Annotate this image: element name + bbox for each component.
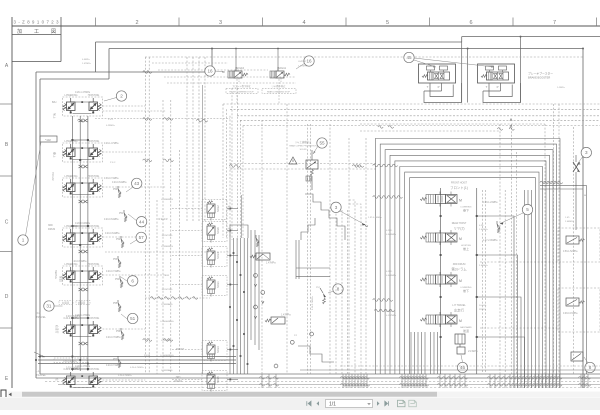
relief glyph mid 1 bbox=[255, 235, 257, 238]
svg-text:巻上: 巻上 bbox=[463, 246, 469, 251]
svg-text:3RD: 3RD bbox=[176, 376, 181, 379]
svg-text:3: 3 bbox=[585, 150, 588, 155]
svg-text:SOL2: SOL2 bbox=[216, 205, 220, 212]
svg-text:2.06MPa: 2.06MPa bbox=[479, 265, 489, 267]
svg-text:HOISTING: HOISTING bbox=[88, 368, 100, 371]
wire left outer border horizontal bbox=[36, 71, 212, 73]
pilot line dashed vertical bundle left 2 bbox=[162, 100, 164, 374]
svg-text:3RD: 3RD bbox=[48, 224, 53, 227]
svg-text:0.29-1.47MPa: 0.29-1.47MPa bbox=[104, 143, 119, 145]
wire mid verticals bundle dashed bbox=[335, 210, 337, 374]
svg-text:L.H: L.H bbox=[36, 369, 40, 373]
svg-text:HOISTING: HOISTING bbox=[88, 263, 100, 266]
balloon 31 leader bbox=[54, 305, 63, 307]
svg-text:SOL10: SOL10 bbox=[236, 66, 245, 70]
svg-text:LOWERING: LOWERING bbox=[64, 140, 77, 143]
solenoid stack valve SOL3 bbox=[202, 341, 227, 361]
svg-text:P: P bbox=[438, 85, 440, 89]
pilot dashed row right mid 2 bbox=[480, 327, 558, 329]
svg-text:0.29MPa: 0.29MPa bbox=[106, 125, 116, 127]
svg-text:LOWERING: LOWERING bbox=[64, 225, 77, 228]
relief valve right of bank bbox=[496, 221, 498, 224]
svg-text:16: 16 bbox=[207, 69, 213, 74]
wire bottom bus 1 bbox=[40, 373, 600, 375]
svg-text:SOL11: SOL11 bbox=[278, 66, 286, 70]
svg-text:0.59-1.52MPa: 0.59-1.52MPa bbox=[563, 251, 578, 253]
balloon 5 mid bbox=[522, 204, 532, 214]
travel crossover arrow bbox=[34, 352, 45, 357]
svg-text:55: 55 bbox=[319, 141, 325, 146]
svg-text:2.06MPa: 2.06MPa bbox=[565, 221, 575, 223]
svg-text:0.98-1.23MPa: 0.98-1.23MPa bbox=[483, 202, 498, 204]
svg-text:右走行: 右走行 bbox=[55, 325, 59, 334]
balloon 46 bbox=[457, 362, 467, 372]
svg-text:0.20-0.70MPa: 0.20-0.70MPa bbox=[106, 337, 121, 339]
wire right border vertical bbox=[582, 49, 584, 389]
wire solid vertical x241 bbox=[240, 195, 242, 238]
svg-text:リヤ巻下停止: リヤ巻下停止 bbox=[271, 84, 286, 88]
wire bottom crossing bundle ticks bbox=[261, 374, 263, 388]
pilot sensor P50 bbox=[117, 186, 119, 189]
balloon 3 right bbox=[581, 147, 591, 157]
svg-text:0.292-: 0.292- bbox=[386, 271, 392, 273]
toolbar page-layout icon 1 bbox=[398, 400, 406, 407]
svg-text:P50: P50 bbox=[113, 188, 118, 191]
svg-text:後退: 後退 bbox=[463, 328, 469, 333]
ripples middle col bbox=[229, 165, 234, 168]
pilot line dashed vertical bundle mid-left bbox=[186, 57, 188, 222]
svg-text:P: P bbox=[497, 85, 499, 89]
svg-text:0.29-0.74MPa: 0.29-0.74MPa bbox=[312, 295, 314, 310]
balloon 45 bbox=[404, 52, 414, 62]
svg-text:0.20-0.64MPa: 0.20-0.64MPa bbox=[104, 219, 119, 221]
pilot line dashed vertical bundle left bbox=[144, 57, 146, 374]
wire travel crossover bus 1 bbox=[38, 356, 236, 358]
viewer corner glyph bbox=[1, 390, 6, 397]
wire staircase upper right 2 bbox=[305, 194, 345, 240]
svg-text:FRONT: FRONT bbox=[176, 348, 185, 351]
wire nested pilot loops right band bbox=[375, 139, 560, 389]
svg-text:0.096-: 0.096- bbox=[386, 311, 392, 313]
brake booster valve 2 bbox=[478, 64, 515, 83]
pilot line dashed vertical right bank bbox=[482, 190, 484, 374]
svg-text:0.5MPa: 0.5MPa bbox=[82, 59, 90, 61]
svg-text:0.20-0.64MPa: 0.20-0.64MPa bbox=[75, 222, 91, 225]
svg-text:1-2MPa: 1-2MPa bbox=[557, 87, 565, 89]
accumulator component bank bottom bbox=[455, 334, 465, 344]
svg-text:HOISTING: HOISTING bbox=[162, 289, 173, 291]
horizontal scrollbar left arrow bbox=[9, 393, 12, 397]
toolbar first-page button bbox=[307, 401, 311, 406]
wire brake booster drop 2 bbox=[520, 37, 522, 103]
svg-text:D: D bbox=[5, 294, 9, 300]
svg-text:M: M bbox=[459, 237, 462, 241]
svg-text:旋回: 旋回 bbox=[59, 276, 63, 282]
pilot jumper dashed pair7 bbox=[103, 379, 146, 381]
svg-text:SOL6: SOL6 bbox=[216, 227, 220, 234]
svg-text:LOWERING: LOWERING bbox=[161, 340, 173, 342]
svg-text:3: 3 bbox=[335, 205, 338, 210]
svg-text:OUTLET: OUTLET bbox=[298, 61, 307, 63]
svg-text:SOL59: SOL59 bbox=[300, 149, 308, 151]
svg-text:45: 45 bbox=[406, 55, 412, 60]
svg-text:T: T bbox=[427, 85, 429, 89]
svg-text:1.37-0.16MPa: 1.37-0.16MPa bbox=[368, 217, 383, 219]
svg-text:P S 2: P S 2 bbox=[110, 162, 116, 164]
balloon 55 leader bbox=[313, 146, 318, 154]
svg-text:0.20-0.64MPa: 0.20-0.64MPa bbox=[105, 233, 120, 235]
svg-text:REAR LOWERING STOP: REAR LOWERING STOP bbox=[267, 90, 291, 93]
svg-text:HOISTING: HOISTING bbox=[88, 175, 100, 178]
wire top bus 1 right part bbox=[462, 36, 600, 38]
remote control valve pair 2 bbox=[63, 143, 103, 162]
balloon 8 mid bbox=[333, 284, 343, 294]
solid vertical mid column b bbox=[254, 230, 256, 345]
remote control valve pair LH travel bbox=[62, 370, 64, 372]
svg-text:フロント(1): フロント(1) bbox=[450, 185, 468, 190]
svg-text:左走行: 左走行 bbox=[454, 308, 465, 313]
svg-text:1.47-2.06MPa: 1.47-2.06MPa bbox=[483, 240, 498, 242]
wire brake booster drop 1 bbox=[461, 42, 463, 103]
far right component bottom bbox=[571, 352, 583, 361]
component box 102 bbox=[40, 136, 57, 142]
svg-text:1.47MPa: 1.47MPa bbox=[266, 262, 276, 265]
solenoid stack valve SOL4 bbox=[202, 247, 227, 267]
svg-text:DRUM: DRUM bbox=[48, 228, 55, 231]
svg-text:巻下: 巻下 bbox=[463, 208, 469, 213]
balloon 3 right leader bbox=[577, 156, 584, 165]
pilot jumper dashed pair1b bbox=[103, 110, 167, 112]
ripples on loop left legs upper bbox=[373, 164, 378, 167]
pilot sensor P54 bbox=[119, 276, 121, 279]
ripples on right dashed bbox=[497, 128, 502, 131]
svg-text:SOL3: SOL3 bbox=[216, 346, 220, 353]
svg-text:0.127MPa: 0.127MPa bbox=[386, 315, 397, 317]
wire left inner border vertical bbox=[39, 79, 41, 374]
svg-text:5: 5 bbox=[386, 20, 389, 26]
ripples on dashed bundle 199-205 bbox=[196, 119, 201, 122]
svg-text:FORWARD: FORWARD bbox=[161, 369, 173, 372]
pilot jumper dashed pair1 bbox=[103, 105, 146, 107]
svg-text:M: M bbox=[459, 319, 462, 323]
wire staircase mid vertical pair bbox=[295, 240, 297, 279]
wire left cluster riser 3 bbox=[87, 116, 89, 371]
svg-text:LOWERING: LOWERING bbox=[161, 199, 173, 201]
pilot line dashed horizontal bank top 2 bbox=[360, 130, 500, 132]
remote control valve pair boom bbox=[63, 97, 103, 116]
svg-text:HOISTING: HOISTING bbox=[88, 94, 100, 97]
travel crossover label box bbox=[54, 358, 87, 363]
pilot sensor P53 bbox=[117, 256, 119, 259]
pilot jumper dashed pair2 bbox=[103, 151, 146, 153]
svg-text:P53: P53 bbox=[113, 258, 118, 261]
svg-text:2: 2 bbox=[135, 20, 138, 26]
svg-text:左: 左 bbox=[55, 378, 59, 381]
riser tie line 3 bbox=[72, 317, 88, 319]
svg-text:21MPa: 21MPa bbox=[479, 309, 487, 311]
pilot line dashed horizontal right 4 bbox=[243, 125, 600, 127]
balloon 51 bbox=[128, 313, 138, 323]
svg-text:16: 16 bbox=[306, 59, 312, 64]
balloon 44 leader bbox=[128, 214, 137, 221]
remote control valve pair RH travel bbox=[62, 319, 64, 321]
wire right extension 1 bbox=[540, 186, 587, 374]
svg-text:R E A R: R E A R bbox=[158, 217, 167, 221]
brake booster valve 1 bbox=[419, 64, 456, 83]
svg-text:M: M bbox=[459, 279, 462, 283]
svg-text:43: 43 bbox=[134, 181, 140, 186]
pilot sensor P57 bbox=[117, 356, 119, 359]
pilot jumper dashed pair6 bbox=[103, 328, 146, 330]
balloon 45 leader b bbox=[414, 58, 494, 67]
wire right extension 2 bbox=[540, 188, 583, 190]
wire bank rail right bbox=[476, 188, 478, 374]
svg-text:0.346MPa: 0.346MPa bbox=[386, 275, 397, 277]
svg-text:0.20-0.64MPa: 0.20-0.64MPa bbox=[72, 261, 87, 263]
dashed vertical 505 bbox=[504, 190, 506, 374]
balloon 45 leader a bbox=[414, 60, 436, 67]
svg-text:HOISTING: HOISTING bbox=[88, 225, 100, 228]
solenoid valve SOL11 rear lowering stop bbox=[270, 71, 276, 78]
toolbar prev-page button bbox=[317, 401, 320, 406]
wire bottom bus 3 dashed bbox=[45, 381, 600, 383]
ripples on loop left leg tops bbox=[378, 126, 383, 129]
svg-text:1: 1 bbox=[22, 238, 25, 243]
horizontal scrollbar thumb bbox=[22, 392, 437, 397]
ripples on loop left legs y300 bbox=[373, 299, 378, 302]
pilot line dashed horizontal 2 bbox=[223, 103, 600, 105]
svg-text:1.47MPa: 1.47MPa bbox=[298, 66, 308, 68]
pilot line dashed vertical mid bbox=[261, 120, 263, 374]
svg-text:リヤ(2): リヤ(2) bbox=[454, 227, 465, 231]
svg-text:吊上: 吊上 bbox=[53, 113, 57, 119]
wire bank rail left bbox=[440, 188, 442, 374]
svg-text:P S 1: P S 1 bbox=[108, 119, 114, 121]
ripples row y160 bbox=[143, 159, 148, 162]
svg-text:REAR COPIED PROHIBITION: REAR COPIED PROHIBITION bbox=[289, 145, 317, 148]
remote control valve pair swing bbox=[63, 228, 103, 247]
dashed vertical pair mid2 bbox=[348, 138, 350, 374]
svg-text:SOL5: SOL5 bbox=[216, 376, 220, 383]
balloon 51 leader bbox=[121, 314, 129, 320]
balloon 16a bbox=[205, 66, 215, 76]
ripples on loop right legs bbox=[557, 181, 562, 184]
toolbar last-page button bbox=[385, 401, 389, 406]
svg-text:HOISTING: HOISTING bbox=[88, 317, 100, 320]
svg-text:0.08-0.15MPa: 0.08-0.15MPa bbox=[563, 313, 578, 315]
svg-text:0.20-0.64MPa: 0.20-0.64MPa bbox=[63, 361, 78, 363]
balloon 43 leader bbox=[126, 187, 133, 192]
valve middle horizontal 2 bbox=[265, 319, 271, 322]
svg-text:0.20-0.74MPa: 0.20-0.74MPa bbox=[118, 375, 133, 377]
junction dots middle column bbox=[229, 252, 248, 365]
svg-text:1.47MPa: 1.47MPa bbox=[82, 63, 92, 65]
balloon 2 leader bbox=[104, 98, 117, 102]
svg-text:左旋回: 左旋回 bbox=[62, 301, 70, 305]
wire bottom dashed horizontal right bbox=[340, 365, 600, 367]
pilot jumper dashed pair3 bbox=[103, 186, 167, 188]
svg-text:FRONT LOWERING STOP: FRONT LOWERING STOP bbox=[229, 91, 254, 93]
solenoid stack valve SOL1 bbox=[202, 276, 227, 296]
svg-text:TRAVEL: TRAVEL bbox=[36, 315, 46, 319]
wire middle solid column bbox=[229, 238, 231, 374]
wire bottom bus 5 dashed bbox=[70, 387, 600, 389]
svg-text:2: 2 bbox=[120, 94, 123, 99]
dashed drop sol10 bbox=[236, 79, 238, 104]
wire top bus 1 left part bbox=[96, 41, 462, 43]
wire travel crossover bus 3 bbox=[38, 363, 236, 365]
svg-text:T: T bbox=[486, 85, 488, 89]
balloon 43 bbox=[132, 178, 142, 188]
svg-text:P54: P54 bbox=[115, 278, 120, 281]
riser tie line 1 bbox=[72, 139, 88, 141]
svg-text:TRAVEL: TRAVEL bbox=[36, 373, 46, 377]
toolbar page number field bbox=[326, 400, 373, 408]
svg-text:8: 8 bbox=[337, 287, 340, 292]
pilot jumper dashed pair4 bbox=[103, 236, 146, 238]
pilot jumper dashed pair5 bbox=[103, 274, 167, 276]
horizontal scrollbar track bbox=[8, 392, 600, 398]
shuttle circle 2 bbox=[261, 291, 265, 295]
balloon 16b bbox=[304, 56, 314, 66]
wire left outer border vertical bbox=[35, 72, 37, 378]
balloon 5 mid leader bbox=[500, 213, 524, 224]
riser tie line 2 bbox=[72, 225, 88, 227]
wire bank output drops right bbox=[477, 216, 514, 388]
balloon 57 bbox=[136, 232, 146, 242]
svg-text:LONGERING: LONGERING bbox=[160, 355, 173, 357]
svg-text:51: 51 bbox=[130, 316, 136, 321]
wire left cluster riser 1 bbox=[71, 116, 73, 371]
far right valve 2 bbox=[566, 236, 579, 244]
dashed row y252 bbox=[105, 251, 230, 253]
svg-text:ブレーキブースター: ブレーキブースター bbox=[528, 72, 553, 76]
solid vertical mid column a bbox=[250, 230, 252, 340]
svg-text:DRUM: DRUM bbox=[174, 380, 181, 383]
remote control valve pair 5 bbox=[63, 266, 103, 285]
svg-text:1/1: 1/1 bbox=[329, 401, 336, 407]
wire brake booster drop 1b bbox=[467, 49, 469, 103]
balloon 31 bbox=[44, 301, 54, 311]
ripples on loop left legs bbox=[373, 196, 378, 199]
svg-text:リヤ上連動防止: リヤ上連動防止 bbox=[295, 140, 312, 144]
toolbar page-layout icon 2 bbox=[409, 400, 417, 407]
svg-text:6: 6 bbox=[469, 20, 472, 26]
svg-text:SWING: SWING bbox=[54, 270, 58, 279]
wire junction drop at 212 bbox=[211, 49, 213, 73]
svg-text:0.29-1.47MPa: 0.29-1.47MPa bbox=[75, 91, 91, 94]
svg-text:7: 7 bbox=[553, 20, 556, 26]
wire solid vertical x202 bbox=[202, 85, 204, 374]
svg-text:3RD DRUM: 3RD DRUM bbox=[453, 263, 466, 266]
valve SOL59 rear copied prohibition bbox=[306, 160, 318, 169]
dashed horizontal y83 bbox=[167, 82, 296, 84]
svg-text:P55: P55 bbox=[113, 302, 118, 305]
wire bank pilot drop bundle low bbox=[410, 332, 412, 374]
pilot dashed box right edge 2 bbox=[558, 288, 600, 332]
svg-text:REAR HOIST: REAR HOIST bbox=[452, 222, 467, 225]
svg-text:第3ドラム: 第3ドラム bbox=[451, 267, 467, 272]
balloon 3 mid leader bbox=[340, 211, 365, 225]
far right crossing glyph bbox=[573, 162, 580, 172]
pilot sensor P51 bbox=[123, 210, 125, 213]
sheet top border ruler line bbox=[12, 25, 600, 27]
staircase mid right lower bbox=[298, 346, 334, 362]
balloon 3 mid bbox=[331, 202, 341, 212]
solenoid stack valve SOL5 bbox=[202, 371, 227, 391]
dashed horizontal rear-copied 2 bbox=[230, 168, 377, 170]
wire bottom bus 4 bbox=[58, 384, 600, 386]
solenoid stack valve SOL6 bbox=[202, 222, 227, 242]
dashed horizontal rear-copied 1 bbox=[230, 163, 377, 165]
dashed row mid left bbox=[145, 297, 210, 299]
balloon 16 leader a bbox=[215, 71, 225, 72]
pilot line dashed vertical sol drops bbox=[231, 88, 233, 240]
travel crossover junction dots bbox=[35, 356, 89, 365]
ripples on dashed pair left bbox=[143, 118, 148, 121]
toolbar page field dropdown caret bbox=[367, 403, 371, 405]
svg-text:BRAKE BOOSTER: BRAKE BOOSTER bbox=[528, 76, 550, 80]
relief glyph near balloon 8 bbox=[320, 288, 323, 293]
svg-text:31: 31 bbox=[46, 304, 52, 309]
svg-text:P57: P57 bbox=[113, 358, 118, 361]
svg-text:巻上: 巻上 bbox=[53, 152, 57, 158]
svg-text:LONGERING: LONGERING bbox=[160, 321, 173, 323]
svg-text:*102: *102 bbox=[45, 138, 51, 142]
junction dots left cluster bbox=[71, 139, 89, 370]
left zone letters A-E bbox=[5, 63, 9, 382]
wire top bus2 left drop bbox=[108, 49, 110, 80]
svg-text:0.20-0.64MPa: 0.20-0.64MPa bbox=[66, 368, 81, 370]
dashed drop sol11 bbox=[278, 79, 280, 104]
svg-text:L.H TRAVEL: L.H TRAVEL bbox=[452, 304, 466, 307]
pilot jumper dashed row y118 bbox=[95, 118, 230, 120]
svg-text:0.20-0.64MPa: 0.20-0.64MPa bbox=[112, 182, 127, 184]
ripples on loop left legs y310 bbox=[374, 309, 379, 312]
balloon 2 bbox=[116, 91, 126, 101]
svg-text:1.47MPa: 1.47MPa bbox=[281, 314, 291, 317]
svg-text:FORWARD: FORWARD bbox=[161, 303, 173, 306]
balloon 55 bbox=[317, 138, 327, 148]
pilot sensor P55 bbox=[117, 300, 119, 303]
svg-text:HOISTING: HOISTING bbox=[88, 140, 100, 143]
pilot dashed row right mid 1 bbox=[480, 261, 558, 263]
toolbar next-page button bbox=[377, 401, 380, 406]
svg-text:HOISTING: HOISTING bbox=[162, 235, 173, 237]
svg-text:3: 3 bbox=[219, 20, 222, 26]
svg-text:B/H: B/H bbox=[52, 100, 56, 104]
dashed arrow marks right bbox=[510, 119, 512, 121]
shuttle circle bottom 2 bbox=[274, 364, 278, 368]
pilot line dashed horizontal top bbox=[145, 56, 583, 58]
ripples on left border line bbox=[143, 71, 148, 74]
stepped dashed rows top-left bbox=[152, 62, 228, 64]
svg-text:LOWERING: LOWERING bbox=[64, 94, 77, 97]
balloon 1 bbox=[18, 235, 28, 245]
svg-text:0.39-0.74MPa: 0.39-0.74MPa bbox=[104, 178, 119, 180]
ruler tick marks top bbox=[96, 18, 597, 27]
balloon 8 right leader bbox=[584, 357, 588, 363]
pilot line dashed vertical mid pair bbox=[307, 124, 309, 374]
balloon 57 leader bbox=[130, 239, 138, 244]
svg-text:LOWERING: LOWERING bbox=[161, 246, 173, 248]
svg-text:7DRUM: 7DRUM bbox=[51, 172, 54, 181]
svg-text:C: C bbox=[5, 220, 9, 226]
svg-text:R.H: R.H bbox=[36, 311, 41, 315]
svg-text:21.5kPa: 21.5kPa bbox=[468, 349, 478, 353]
svg-text:6: 6 bbox=[131, 278, 134, 283]
svg-text:SOL4: SOL4 bbox=[216, 252, 220, 259]
